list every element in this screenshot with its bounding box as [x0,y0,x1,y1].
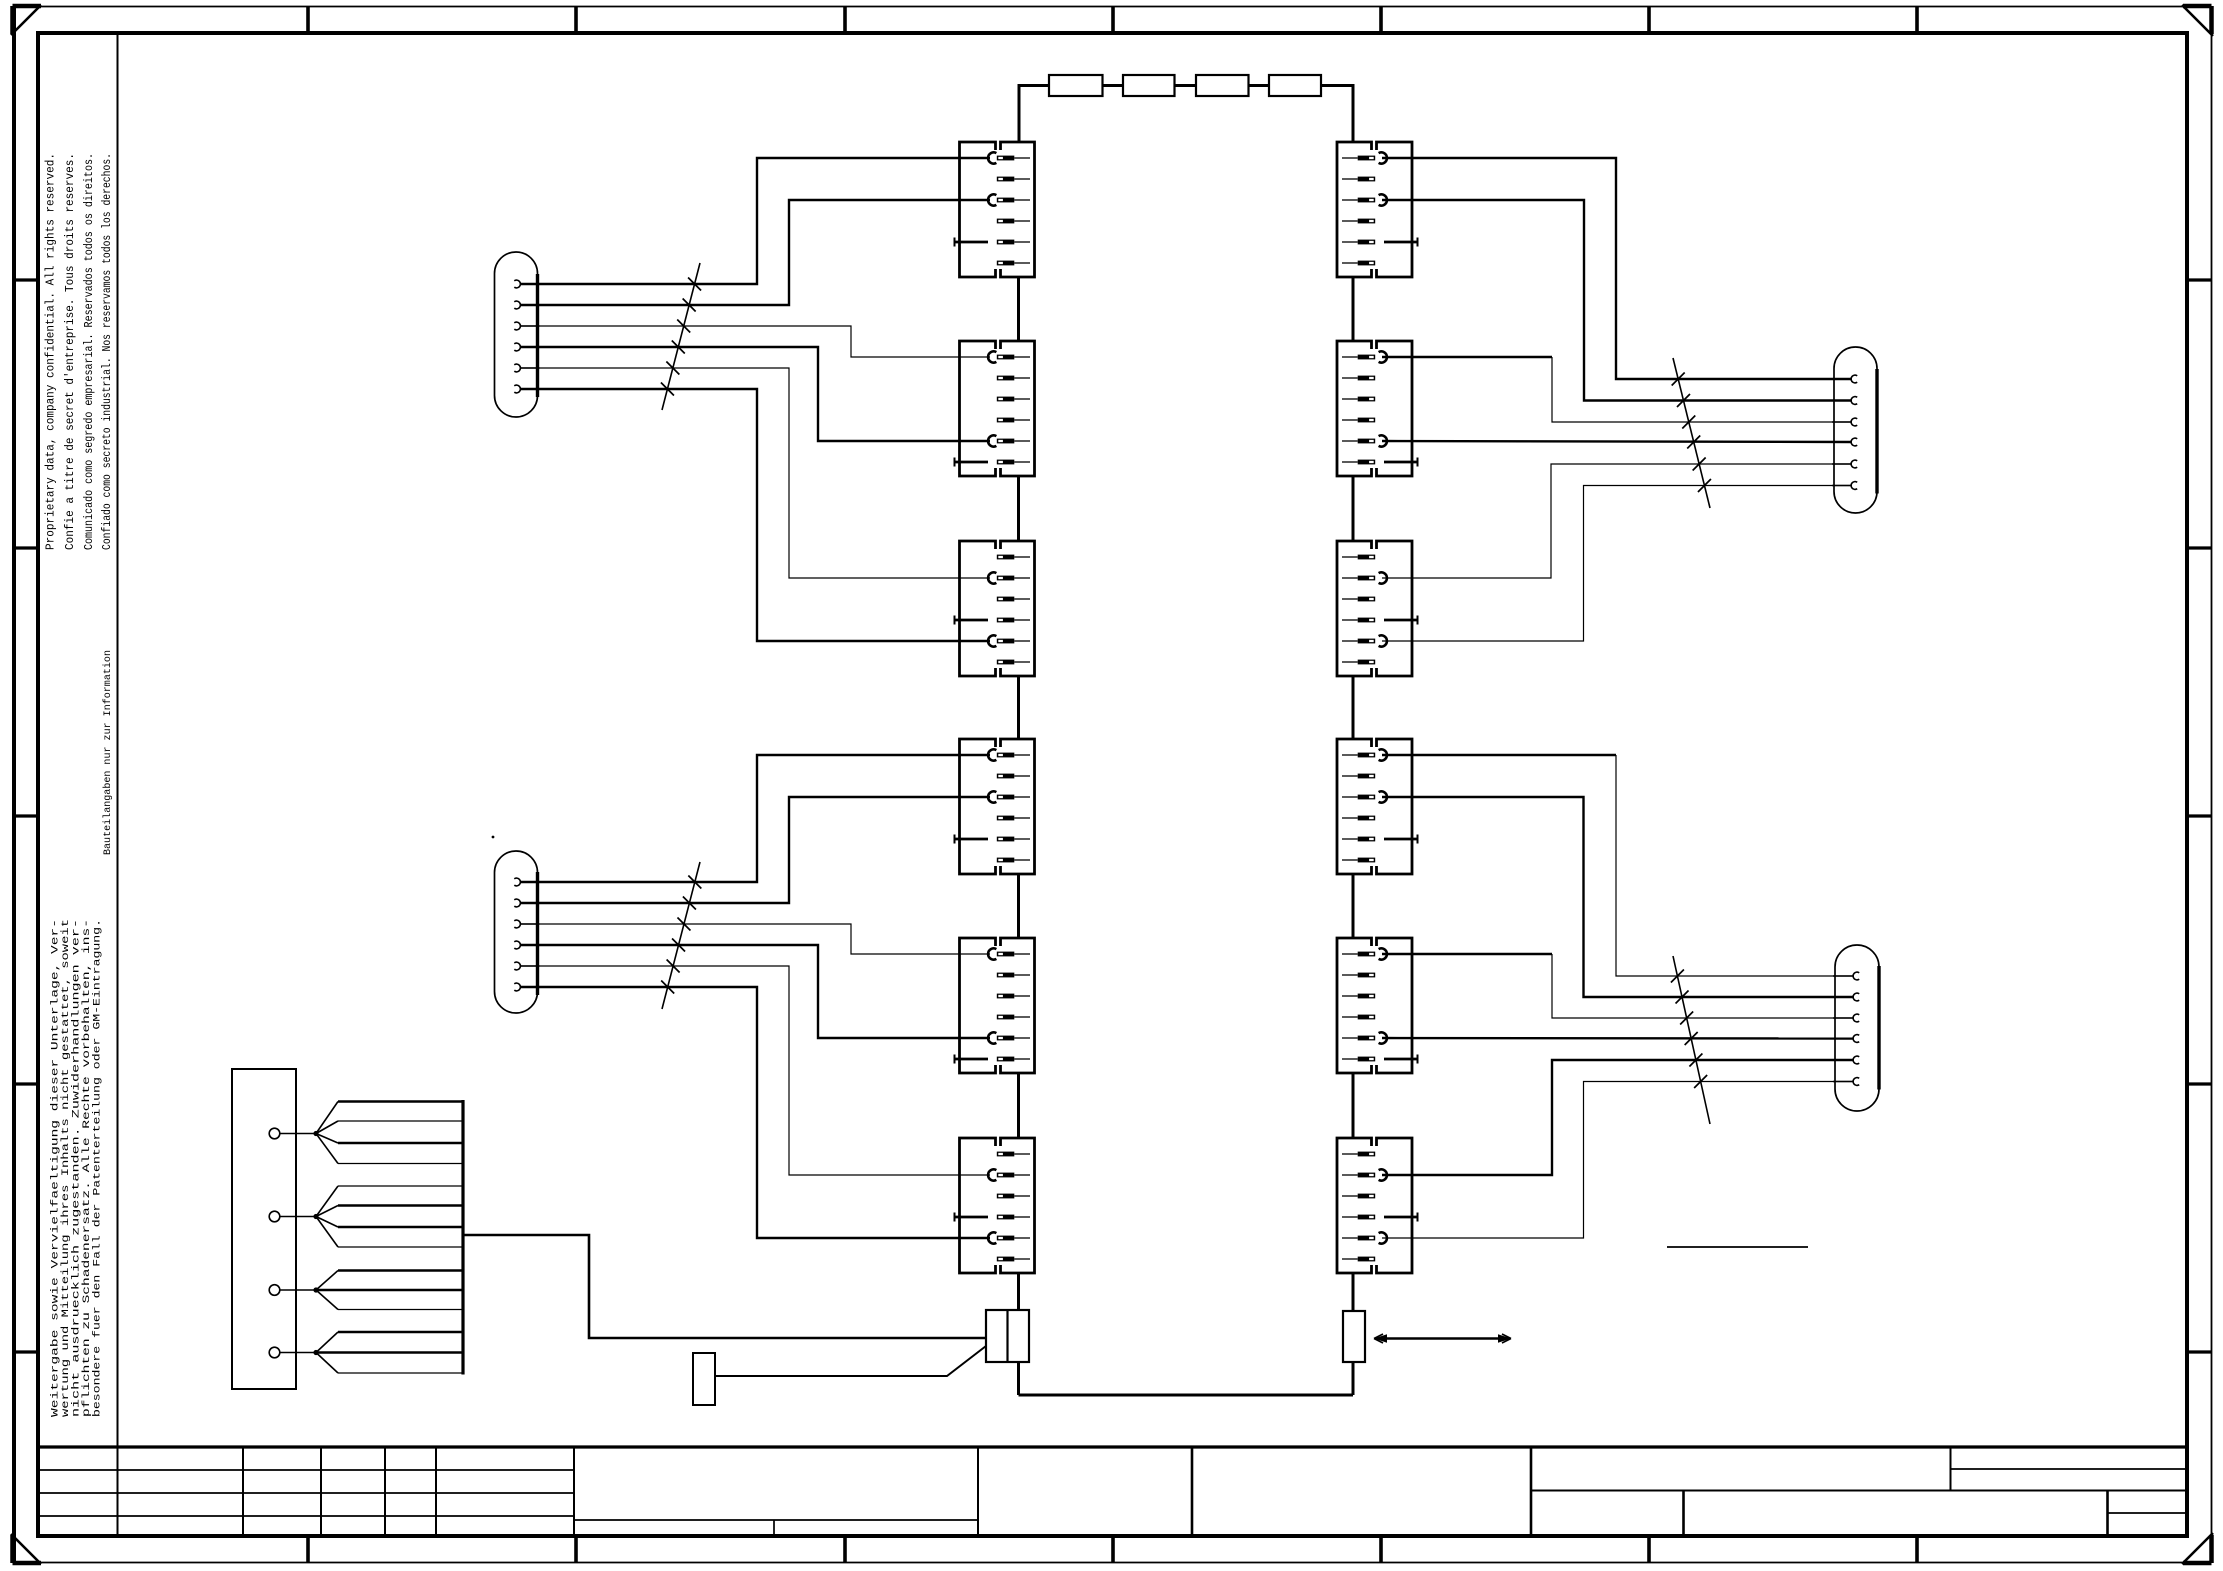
pin 4 of X2 [997,418,1030,423]
pin 3 of X4 [988,791,1030,802]
bus wire segments left column [1017,277,1020,1310]
pin 6 of X6 [997,1257,1030,1262]
pin 4 of P4 [1833,1035,1859,1043]
pin 4 of X8 [1342,418,1375,423]
bottom bus wire [1019,1362,1354,1395]
pin 4 of X11 [1342,1015,1375,1020]
pin 4 of X10 [1342,816,1375,821]
wire fan group 3 from A1 [316,1271,463,1310]
pin 4 of X3 [955,616,1031,625]
connector X6 [960,1138,1035,1273]
wire X9.2-P3.5 [1382,464,1852,578]
pin 6 of X9 [1342,660,1375,665]
wire X9.5-P3.6 [1382,486,1852,642]
wire P2.3-X5.1 [520,924,990,954]
pin 5 of X7 [1342,238,1418,247]
pin 2 of X9 [1342,572,1387,583]
pin 1 of P1 [514,280,539,288]
wire fan group 2 from A1 [316,1186,463,1247]
pin 5 of P3 [1832,460,1857,468]
pin 4 of X9 [1342,616,1418,625]
pin 5 of X1 [955,238,1031,247]
pin 3 of P3 [1832,418,1857,426]
inline component R2 [1123,75,1175,96]
svg-text:Confiado como secreto industri: Confiado como secreto industrial. Nos re… [100,153,114,550]
wire X7.3-P3.2 [1382,200,1852,401]
pin 1 of P4 [1833,972,1859,980]
pin 6 of X2 [955,458,1031,467]
connector X9 [1337,541,1412,676]
pin 3 of X8 [1342,397,1375,402]
pin 2 of X6 [988,1169,1030,1180]
pin 2 of X8 [1342,376,1375,381]
wire X12.2-P4.5 [1382,1060,1853,1175]
inline component F1 (bottom) [1343,1311,1365,1362]
zone tick marks left edge [13,280,39,1352]
wire P2.2-X4.3 [520,797,990,903]
bus wire segments right column [1352,277,1355,1311]
margin text column divider [117,33,119,1536]
inline component R1 [1049,75,1103,96]
wire P1.2-X1.3 [520,200,990,305]
connector X8 [1337,341,1412,476]
svg-text:Bauteilangaben nur zur Informa: Bauteilangaben nur zur Information [102,650,114,855]
pin 1 of X3 [997,555,1030,560]
title block right cells [1531,1447,2187,1536]
terminal eyelet 3 of A1 [269,1285,318,1296]
pin 3 of X6 [997,1194,1030,1199]
harness bundle mark B4 [1671,956,1710,1124]
zone tick marks top edge [308,6,1917,33]
pin 4 of X6 [955,1213,1031,1222]
pin 3 of X9 [1342,597,1375,602]
title block top rule [38,1445,2187,1448]
svg-text:Proprietary data, company conf: Proprietary data, company confidential. … [44,153,58,550]
pin 3 of P4 [1833,1014,1859,1022]
pin 5 of X9 [1342,635,1387,646]
revision table (left) [38,1447,574,1536]
top bus rail [1019,84,1353,142]
connector P3 (ring terminal strip) [1832,347,1877,513]
svg-text:besondere fuer den Fall der Pa: besondere fuer den Fall der Patenterteil… [92,919,104,1417]
pin 1 of X4 [988,749,1030,760]
wire X12.5-P4.6 [1382,1082,1853,1239]
pin 6 of X11 [1342,1055,1418,1064]
wire P2.6-X6.5 [520,987,990,1238]
pin 3 of X10 [1342,791,1387,802]
pin 2 of P4 [1833,993,1859,1001]
inline connector pair X13 [986,1310,1029,1362]
wire X10.1-P4.1a [1382,754,1616,756]
pin 2 of X5 [997,973,1030,978]
pin 4 of P2 [514,941,539,949]
connector X1 [960,142,1035,277]
pin 3 of X7 [1342,194,1387,205]
harness bundle mark B2 [661,862,701,1009]
wire X13 to splice S1 [715,1346,986,1376]
pin 4 of X1 [997,219,1030,224]
pin 5 of P1 [514,364,539,372]
pin 5 of P4 [1833,1056,1859,1064]
wire X10.3-P4.2 [1382,797,1853,997]
pin 1 of X1 [988,152,1030,163]
splice S1 [693,1353,715,1405]
connector X10 [1337,739,1412,874]
pin 5 of X2 [988,435,1030,446]
connector X7 [1337,142,1412,277]
pin 6 of X4 [997,858,1030,863]
wire X8.5-P3.4 [1382,441,1852,442]
connector X3 [960,541,1035,676]
pin 1 of X11 [1342,948,1387,959]
wire P2.1-X4.1 [520,755,990,882]
zone tick marks right edge [2187,280,2212,1352]
terminal eyelet 2 of A1 [269,1211,318,1222]
inline component R3 [1196,75,1249,96]
wire P2.4-X5.5 [520,945,990,1038]
wire X8.1-P3.3a [1382,356,1552,358]
connector X12 [1337,1138,1412,1273]
splice bus bar of A1 [461,1100,464,1375]
pin 4 of X5 [997,1015,1030,1020]
terminal eyelet 1 of A1 [269,1128,318,1139]
Bauteilangaben note (rotated) [102,650,114,855]
harness bundle mark B1 [661,263,701,410]
pin 1 of P2 [514,878,539,886]
pin 3 of X12 [1342,1194,1375,1199]
pin 2 of P2 [514,899,539,907]
pin 1 of X5 [988,948,1030,959]
pin 5 of X11 [1342,1032,1387,1043]
wire P1.3-X2.1 [520,326,990,357]
pin 3 of P2 [514,920,539,928]
pin 1 of X6 [997,1152,1030,1157]
terminal eyelet 4 of A1 [269,1347,318,1358]
wire X7.1-P3.1 [1382,158,1852,379]
svg-text:Confie a titre de secret d'ent: Confie a titre de secret d'entreprise. T… [63,153,77,550]
pin 6 of P3 [1832,482,1857,490]
wire fan group 1 from A1 [316,1102,463,1164]
pin 2 of X12 [1342,1169,1387,1180]
pin 2 of X10 [1342,774,1375,779]
pin 2 of X4 [997,774,1030,779]
pin 1 of X7 [1342,152,1387,163]
pin 1 of P3 [1832,375,1857,383]
connector X4 [960,739,1035,874]
pin 2 of X2 [997,376,1030,381]
pin 6 of X12 [1342,1257,1375,1262]
connector X11 [1337,938,1412,1073]
wire P1.4-X2.5 [520,347,990,441]
wire X8.1-P3.3b [1552,357,1852,422]
module A1 housing [232,1069,296,1389]
pin 2 of P1 [514,301,539,309]
reference line [1667,1246,1808,1248]
pin 3 of X1 [988,194,1030,205]
harness bundle mark B3 [1672,358,1711,508]
connector P2 (ring terminal strip) [495,851,540,1013]
pin 5 of X6 [988,1232,1030,1243]
connector X2 [960,341,1035,476]
pin 1 of X2 [988,351,1030,362]
pin 4 of P1 [514,343,539,351]
wire A1 to X13 [463,1235,986,1338]
wire P1.5-X3.2 [520,368,990,578]
wire X11.1-P4.3b [1552,954,1853,1018]
dimension arrow [1374,1334,1511,1343]
corner trim mark top-right [2182,5,2213,36]
pin 2 of X3 [988,572,1030,583]
wire X11.5-P4.4 [1382,1037,1853,1040]
pin 1 of X12 [1342,1152,1375,1157]
svg-text:Comunicado como segredo empres: Comunicado como segredo empresarial. Res… [82,153,96,550]
pin 6 of X8 [1342,458,1418,467]
wire P1.1-X1.1 [520,158,990,284]
pin 4 of P3 [1832,438,1857,446]
corner trim mark top-left [11,5,41,35]
wire P2.5-X6.2 [520,966,990,1175]
wire P1.6-X3.5 [520,389,990,641]
connector P4 (ring terminal strip) [1833,945,1879,1111]
pin 1 of X8 [1342,351,1387,362]
pin 6 of X1 [997,261,1030,266]
pin 6 of P2 [514,983,539,991]
pin 5 of X12 [1342,1232,1387,1243]
proprietary notice text (rotated) [44,153,115,550]
connector P1 (ring terminal strip) [495,252,540,417]
pin 6 of X7 [1342,261,1375,266]
pin 3 of X3 [997,597,1030,602]
wire X11.1-P4.3a [1382,953,1552,955]
pin 6 of X3 [997,660,1030,665]
pin 5 of X4 [955,835,1031,844]
title block centre cells [574,1447,1192,1536]
zone tick marks bottom edge [308,1536,1917,1563]
pin 5 of X5 [988,1032,1030,1043]
corner trim mark bottom-left [11,1534,41,1564]
pin 4 of X4 [997,816,1030,821]
pin 2 of X1 [997,177,1030,182]
pin 5 of X3 [988,635,1030,646]
wire fan group 4 from A1 [316,1332,463,1373]
pin 5 of X8 [1342,435,1387,446]
pin 6 of P4 [1833,1078,1859,1086]
pin 6 of P1 [514,385,539,393]
inline component R4 [1269,75,1321,96]
pin 6 of X10 [1342,858,1375,863]
pin 5 of X10 [1342,835,1418,844]
pin 4 of X7 [1342,219,1375,224]
stray plot dot [492,836,495,839]
pin 2 of X11 [1342,973,1375,978]
pin 2 of P3 [1832,397,1857,405]
pin 3 of X5 [997,994,1030,999]
pin 3 of X11 [1342,994,1375,999]
pin 6 of X5 [955,1055,1031,1064]
pin 1 of X10 [1342,749,1387,760]
wire X10.1-P4.1b [1616,755,1853,976]
pin 3 of P1 [514,322,539,330]
pin 1 of X9 [1342,555,1375,560]
pin 4 of X12 [1342,1213,1418,1222]
connector X5 [960,938,1035,1073]
pin 2 of X7 [1342,177,1375,182]
German legal notice text (rotated) [50,919,104,1417]
pin 5 of P2 [514,962,539,970]
pin 3 of X2 [997,397,1030,402]
corner trim mark bottom-right [2182,1533,2213,1564]
